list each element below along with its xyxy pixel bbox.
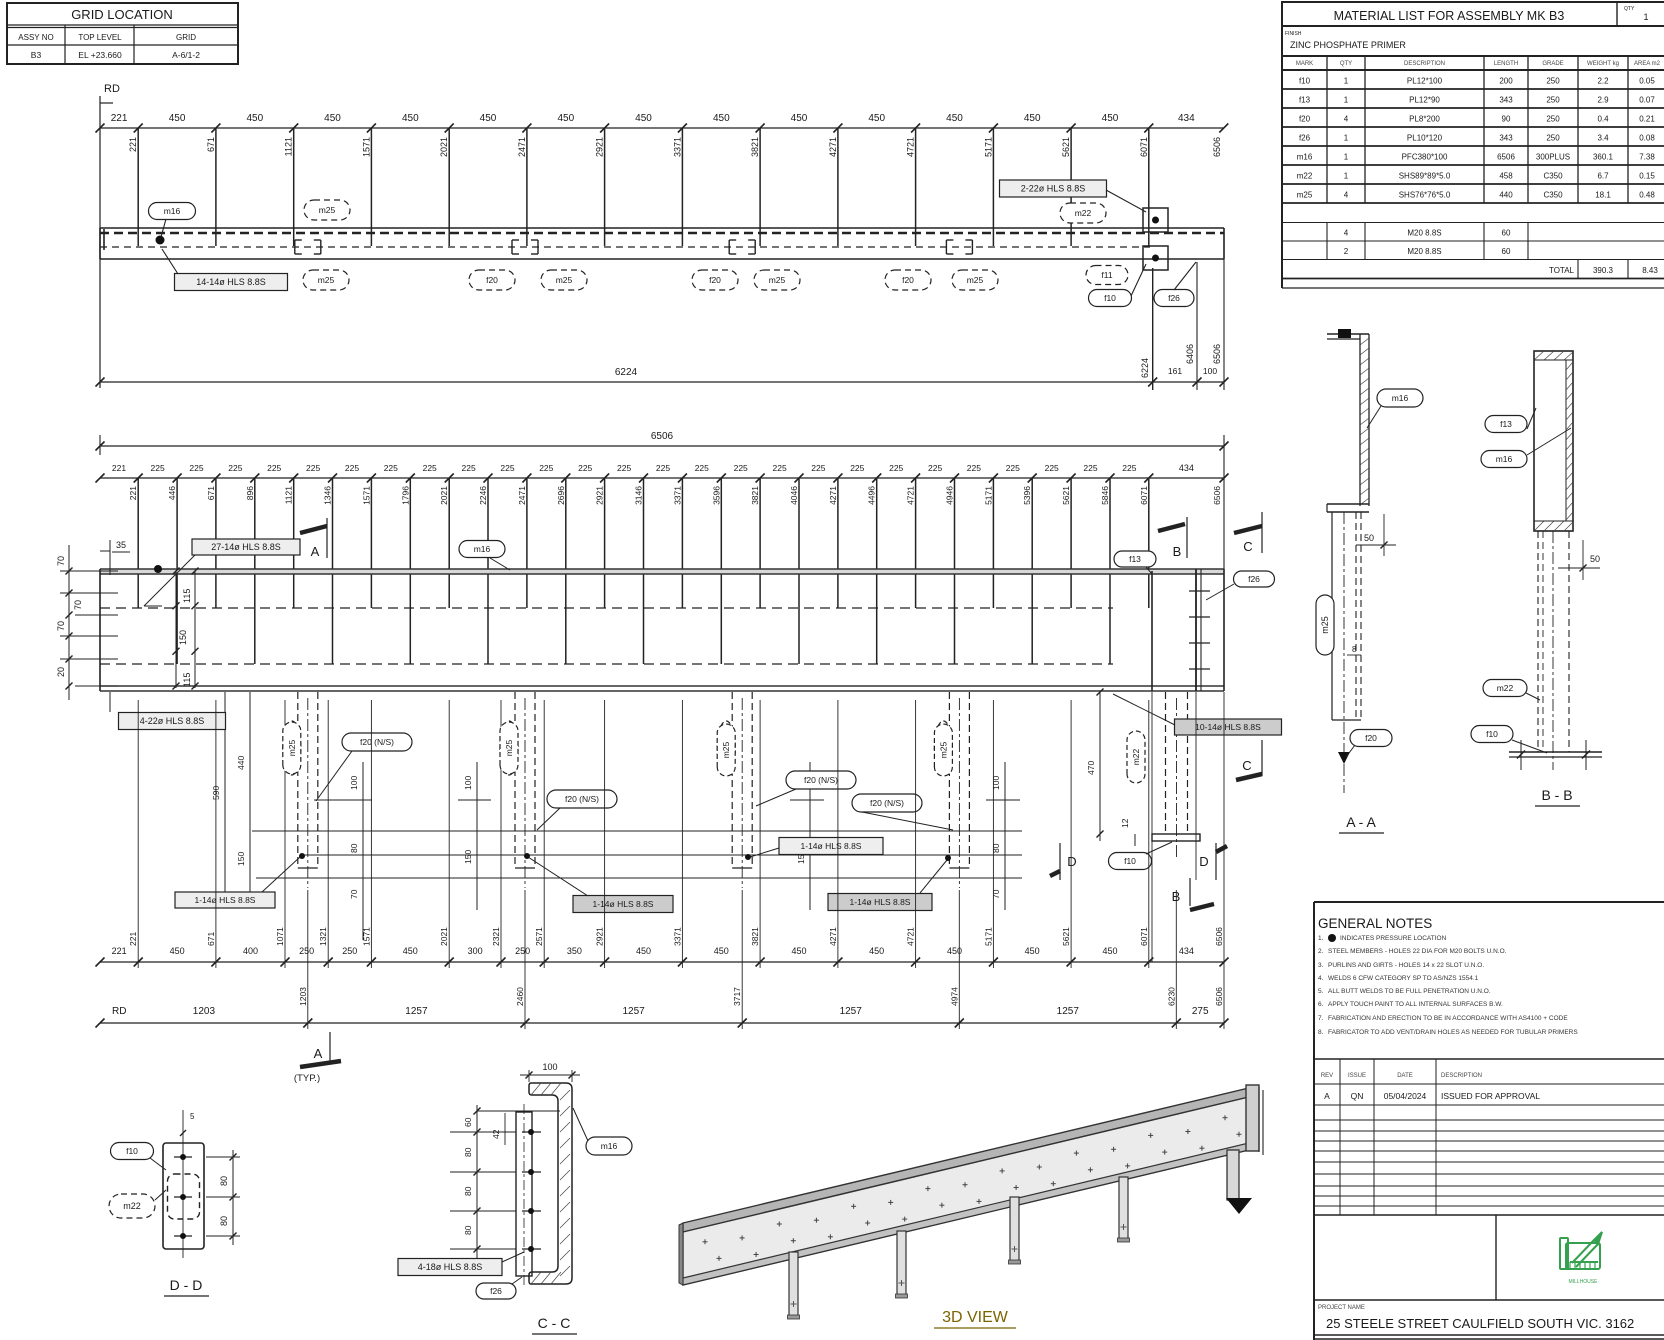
svg-text:1: 1 (1344, 134, 1349, 143)
svg-text:m22: m22 (1297, 172, 1313, 181)
svg-text:100: 100 (1203, 366, 1217, 376)
svg-text:671: 671 (206, 486, 216, 500)
svg-text:1571: 1571 (361, 137, 371, 157)
svg-text:3596: 3596 (711, 486, 721, 505)
svg-text:A: A (1324, 1091, 1330, 1101)
svg-text:QN: QN (1351, 1091, 1364, 1101)
svg-text:f10: f10 (126, 1146, 138, 1156)
svg-text:275: 275 (1192, 1006, 1209, 1017)
svg-text:225: 225 (967, 463, 981, 473)
svg-text:6224: 6224 (1140, 358, 1150, 378)
svg-text:6071: 6071 (1139, 137, 1149, 157)
svg-text:2.9: 2.9 (1597, 96, 1609, 105)
svg-text:5: 5 (190, 1112, 195, 1121)
svg-text:450: 450 (947, 946, 962, 956)
svg-text:f10: f10 (1124, 856, 1136, 866)
svg-text:4496: 4496 (867, 486, 877, 505)
svg-text:DESCRIPTION: DESCRIPTION (1441, 1073, 1482, 1079)
svg-text:1571: 1571 (361, 927, 371, 946)
svg-text:360.1: 360.1 (1593, 153, 1614, 162)
svg-text:450: 450 (480, 113, 497, 124)
svg-text:PL12*90: PL12*90 (1409, 96, 1440, 105)
svg-text:m25: m25 (1320, 616, 1330, 634)
svg-text:450: 450 (402, 113, 419, 124)
svg-text:D - D: D - D (170, 1277, 203, 1293)
svg-text:4271: 4271 (828, 486, 838, 505)
svg-text:C: C (1242, 758, 1251, 773)
svg-text:225: 225 (500, 463, 514, 473)
svg-text:m16: m16 (1392, 393, 1409, 403)
svg-text:m25: m25 (556, 275, 573, 285)
svg-text:3.: 3. (1318, 962, 1324, 969)
svg-text:225: 225 (850, 463, 864, 473)
svg-text:1257: 1257 (622, 1006, 645, 1017)
svg-text:70: 70 (56, 621, 66, 631)
svg-text:5621: 5621 (1061, 486, 1071, 505)
svg-text:0.4: 0.4 (1597, 115, 1609, 124)
svg-text:225: 225 (267, 463, 281, 473)
svg-text:8.: 8. (1318, 1029, 1324, 1036)
svg-text:225: 225 (384, 463, 398, 473)
svg-text:2921: 2921 (595, 137, 605, 157)
svg-text:4046: 4046 (789, 486, 799, 505)
svg-text:FINISH: FINISH (1285, 31, 1302, 37)
svg-text:2.2: 2.2 (1597, 77, 1609, 86)
svg-text:3371: 3371 (672, 927, 682, 946)
svg-text:1-14ø HLS 8.8S: 1-14ø HLS 8.8S (801, 841, 862, 851)
svg-text:MATERIAL LIST FOR ASSEMBLY MK: MATERIAL LIST FOR ASSEMBLY MK B3 (1334, 9, 1565, 23)
svg-text:225: 225 (578, 463, 592, 473)
svg-text:671: 671 (206, 932, 216, 946)
svg-text:m16: m16 (474, 544, 491, 554)
svg-text:225: 225 (462, 463, 476, 473)
svg-text:1257: 1257 (840, 1006, 863, 1017)
svg-text:12: 12 (1120, 818, 1130, 828)
svg-text:225: 225 (345, 463, 359, 473)
svg-text:2921: 2921 (595, 927, 605, 946)
svg-text:4-22ø HLS 8.8S: 4-22ø HLS 8.8S (140, 716, 205, 726)
svg-text:70: 70 (349, 889, 359, 899)
svg-text:m25: m25 (769, 275, 786, 285)
svg-text:458: 458 (1499, 172, 1513, 181)
svg-text:m25: m25 (967, 275, 984, 285)
svg-text:450: 450 (170, 946, 185, 956)
svg-text:3371: 3371 (672, 486, 682, 505)
svg-text:B - B: B - B (1541, 787, 1572, 803)
svg-text:6.7: 6.7 (1597, 172, 1609, 181)
svg-text:450: 450 (791, 946, 806, 956)
svg-text:450: 450 (1102, 946, 1117, 956)
svg-text:m22: m22 (1497, 683, 1514, 693)
svg-text:450: 450 (946, 113, 963, 124)
svg-text:f26: f26 (1168, 293, 1180, 303)
svg-text:RD: RD (104, 83, 120, 95)
svg-text:434: 434 (1179, 463, 1194, 473)
svg-text:1203: 1203 (193, 1006, 216, 1017)
svg-text:m25: m25 (504, 739, 514, 756)
svg-text:225: 225 (811, 463, 825, 473)
svg-text:f11: f11 (1101, 270, 1112, 280)
svg-text:2471: 2471 (517, 137, 527, 157)
svg-text:6224: 6224 (615, 367, 638, 378)
svg-text:25 STEELE STREET CAULFIELD SOU: 25 STEELE STREET CAULFIELD SOUTH VIC. 31… (1326, 1316, 1634, 1331)
svg-text:TOP LEVEL: TOP LEVEL (78, 33, 122, 42)
svg-text:115: 115 (182, 673, 192, 687)
svg-text:PL12*100: PL12*100 (1407, 77, 1443, 86)
svg-text:PURLINS AND GIRTS - HOLES 14 x: PURLINS AND GIRTS - HOLES 14 x 22 SLOT U… (1328, 962, 1484, 969)
svg-text:f26: f26 (1248, 574, 1260, 584)
svg-text:200: 200 (1499, 77, 1513, 86)
svg-text:27-14ø HLS 8.8S: 27-14ø HLS 8.8S (211, 542, 281, 552)
svg-text:42: 42 (491, 1129, 501, 1139)
svg-text:DATE: DATE (1397, 1073, 1413, 1079)
svg-text:4: 4 (1344, 229, 1349, 238)
svg-text:M20 8.8S: M20 8.8S (1407, 247, 1441, 256)
svg-text:m16: m16 (1496, 454, 1513, 464)
svg-text:ISSUED FOR APPROVAL: ISSUED FOR APPROVAL (1441, 1091, 1540, 1101)
svg-text:100: 100 (991, 776, 1001, 790)
svg-text:3371: 3371 (672, 137, 682, 157)
svg-text:0.05: 0.05 (1639, 77, 1655, 86)
svg-text:f20 (N/S): f20 (N/S) (804, 775, 838, 785)
svg-text:(TYP.): (TYP.) (294, 1073, 320, 1084)
svg-text:f20: f20 (709, 275, 721, 285)
svg-text:4721: 4721 (906, 927, 916, 946)
svg-text:m16: m16 (601, 1141, 618, 1151)
svg-text:225: 225 (1006, 463, 1020, 473)
svg-text:225: 225 (773, 463, 787, 473)
svg-text:1121: 1121 (284, 486, 294, 505)
svg-text:100: 100 (349, 776, 359, 790)
svg-text:221: 221 (111, 113, 128, 124)
svg-text:APPLY TOUCH PAINT TO ALL INTER: APPLY TOUCH PAINT TO ALL INTERNAL SURFAC… (1328, 1001, 1503, 1008)
svg-text:GRID: GRID (176, 33, 196, 42)
svg-text:250: 250 (299, 946, 314, 956)
svg-text:1121: 1121 (284, 137, 294, 156)
svg-text:6506: 6506 (1212, 344, 1222, 364)
svg-text:225: 225 (189, 463, 203, 473)
svg-text:450: 450 (791, 113, 808, 124)
svg-text:D: D (1067, 854, 1076, 869)
svg-text:70: 70 (56, 556, 66, 566)
svg-text:2: 2 (1344, 247, 1349, 256)
svg-text:2-22ø HLS 8.8S: 2-22ø HLS 8.8S (1021, 184, 1086, 194)
svg-text:1321: 1321 (318, 927, 328, 946)
svg-text:AREA m2: AREA m2 (1634, 61, 1661, 67)
svg-text:80: 80 (463, 1186, 473, 1196)
svg-text:C350: C350 (1543, 172, 1563, 181)
svg-text:REV: REV (1321, 1073, 1333, 1079)
svg-text:3821: 3821 (750, 927, 760, 946)
svg-text:6071: 6071 (1139, 927, 1149, 946)
svg-text:450: 450 (403, 946, 418, 956)
svg-text:m25: m25 (318, 275, 335, 285)
svg-text:6506: 6506 (1212, 137, 1222, 157)
svg-text:GRADE: GRADE (1542, 61, 1563, 67)
svg-text:50: 50 (1364, 533, 1374, 543)
svg-text:5846: 5846 (1100, 486, 1110, 505)
svg-text:4721: 4721 (906, 486, 916, 505)
svg-text:GENERAL NOTES: GENERAL NOTES (1318, 916, 1432, 931)
svg-text:GRID LOCATION: GRID LOCATION (71, 7, 173, 22)
svg-text:50: 50 (1590, 554, 1600, 564)
svg-text:FABRICATION AND ERECTION TO BE: FABRICATION AND ERECTION TO BE IN ACCORD… (1328, 1015, 1568, 1022)
svg-text:150: 150 (463, 850, 473, 864)
svg-text:2460: 2460 (515, 987, 525, 1006)
svg-text:0.21: 0.21 (1639, 115, 1655, 124)
svg-text:0.08: 0.08 (1639, 134, 1655, 143)
svg-text:390.3: 390.3 (1593, 266, 1614, 275)
svg-text:f20: f20 (902, 275, 914, 285)
svg-text:434: 434 (1179, 946, 1194, 956)
svg-text:1346: 1346 (323, 486, 333, 505)
svg-text:6506: 6506 (1497, 153, 1515, 162)
svg-text:PL10*120: PL10*120 (1407, 134, 1443, 143)
svg-text:1.: 1. (1318, 935, 1324, 942)
svg-text:MARK: MARK (1296, 61, 1313, 67)
svg-text:450: 450 (869, 946, 884, 956)
svg-text:225: 225 (889, 463, 903, 473)
svg-text:A: A (311, 544, 320, 559)
svg-text:450: 450 (636, 946, 651, 956)
svg-text:161: 161 (1168, 366, 1182, 376)
svg-text:90: 90 (1502, 115, 1511, 124)
svg-text:2571: 2571 (534, 927, 544, 946)
svg-text:250: 250 (1546, 134, 1560, 143)
svg-text:1: 1 (1344, 153, 1349, 162)
svg-text:f20: f20 (486, 275, 498, 285)
svg-text:671: 671 (206, 137, 216, 152)
svg-text:35: 35 (116, 540, 126, 550)
svg-text:80: 80 (219, 1176, 229, 1186)
svg-text:7.38: 7.38 (1639, 153, 1655, 162)
svg-text:343: 343 (1499, 96, 1513, 105)
svg-text:EL +23.660: EL +23.660 (78, 50, 122, 60)
svg-text:M20 8.8S: M20 8.8S (1407, 229, 1441, 238)
svg-text:450: 450 (1025, 946, 1040, 956)
svg-text:6506: 6506 (1214, 987, 1224, 1006)
svg-text:0.15: 0.15 (1639, 172, 1655, 181)
svg-text:m16: m16 (1297, 153, 1313, 162)
svg-text:3821: 3821 (750, 137, 760, 157)
svg-text:4: 4 (1344, 115, 1349, 124)
svg-text:f10: f10 (1486, 729, 1498, 739)
svg-text:f13: f13 (1129, 554, 1141, 564)
svg-text:m22: m22 (1075, 208, 1092, 218)
svg-text:4-18ø HLS 8.8S: 4-18ø HLS 8.8S (418, 1262, 483, 1272)
svg-text:4: 4 (1344, 191, 1349, 200)
svg-text:f20 (N/S): f20 (N/S) (565, 794, 599, 804)
svg-text:221: 221 (128, 932, 138, 946)
svg-text:5621: 5621 (1061, 927, 1071, 946)
svg-text:450: 450 (1102, 113, 1119, 124)
svg-text:450: 450 (1024, 113, 1041, 124)
svg-text:2021: 2021 (439, 137, 449, 157)
svg-text:450: 450 (246, 113, 263, 124)
svg-text:450: 450 (635, 113, 652, 124)
svg-text:343: 343 (1499, 134, 1513, 143)
svg-text:225: 225 (228, 463, 242, 473)
svg-text:225: 225 (306, 463, 320, 473)
svg-text:f26: f26 (490, 1286, 502, 1296)
svg-text:ASSY NO: ASSY NO (18, 33, 53, 42)
svg-text:221: 221 (128, 486, 138, 500)
svg-text:1071: 1071 (275, 927, 285, 946)
svg-text:250: 250 (515, 946, 530, 956)
svg-text:WELDS 6 CFW CATEGORY SP TO AS/: WELDS 6 CFW CATEGORY SP TO AS/NZS 1554.1 (1328, 975, 1479, 982)
svg-text:1-14ø HLS 8.8S: 1-14ø HLS 8.8S (195, 895, 256, 905)
svg-text:5.: 5. (1318, 988, 1324, 995)
svg-text:80: 80 (219, 1216, 229, 1226)
svg-text:WEIGHT kg: WEIGHT kg (1587, 61, 1619, 67)
svg-text:221: 221 (112, 463, 126, 473)
svg-text:14-14ø HLS 8.8S: 14-14ø HLS 8.8S (196, 277, 266, 287)
svg-text:f20 (N/S): f20 (N/S) (360, 737, 394, 747)
svg-text:f20: f20 (1365, 733, 1377, 743)
svg-text:18.1: 18.1 (1595, 191, 1611, 200)
svg-text:TOTAL: TOTAL (1549, 266, 1575, 275)
svg-text:80: 80 (463, 1147, 473, 1157)
svg-text:m25: m25 (287, 739, 297, 756)
svg-text:100: 100 (463, 776, 473, 790)
svg-text:8.43: 8.43 (1642, 266, 1658, 275)
svg-text:150: 150 (236, 852, 246, 866)
svg-text:400: 400 (243, 946, 258, 956)
svg-text:250: 250 (1546, 115, 1560, 124)
svg-text:ISSUE: ISSUE (1348, 1073, 1366, 1079)
svg-text:MILLHOUSE: MILLHOUSE (1569, 1279, 1599, 1285)
svg-text:80: 80 (463, 1225, 473, 1235)
svg-text:434: 434 (1178, 113, 1195, 124)
svg-text:f10: f10 (1299, 77, 1311, 86)
svg-text:250: 250 (1546, 77, 1560, 86)
svg-text:INDICATES PRESSURE LOCATION: INDICATES PRESSURE LOCATION (1340, 935, 1447, 942)
svg-text:0.07: 0.07 (1639, 96, 1655, 105)
svg-text:LENGTH: LENGTH (1494, 61, 1518, 67)
svg-text:5171: 5171 (983, 486, 993, 505)
svg-text:PROJECT NAME: PROJECT NAME (1318, 1305, 1365, 1311)
svg-text:350: 350 (567, 946, 582, 956)
svg-text:6.: 6. (1318, 1001, 1324, 1008)
svg-text:1: 1 (1344, 96, 1349, 105)
svg-text:f13: f13 (1299, 96, 1311, 105)
svg-text:f10: f10 (1104, 293, 1116, 303)
svg-text:ALL BUTT WELDS TO BE FULL PENE: ALL BUTT WELDS TO BE FULL PENETRATION U.… (1328, 988, 1491, 995)
svg-text:5396: 5396 (1022, 486, 1032, 505)
svg-text:450: 450 (713, 113, 730, 124)
svg-text:3821: 3821 (750, 486, 760, 505)
svg-text:470: 470 (1086, 761, 1096, 775)
svg-text:STEEL MEMBERS - HOLES 22 DIA F: STEEL MEMBERS - HOLES 22 DIA FOR M20 BOL… (1328, 948, 1507, 955)
svg-text:450: 450 (868, 113, 885, 124)
svg-text:4946: 4946 (945, 486, 955, 505)
svg-text:440: 440 (236, 756, 246, 770)
svg-text:1-14ø HLS 8.8S: 1-14ø HLS 8.8S (593, 899, 654, 909)
svg-text:450: 450 (169, 113, 186, 124)
svg-text:m22: m22 (123, 1201, 141, 1211)
svg-text:250: 250 (1546, 96, 1560, 105)
svg-text:1: 1 (1643, 12, 1648, 22)
svg-text:6506: 6506 (1212, 486, 1222, 505)
svg-text:m16: m16 (164, 206, 181, 216)
svg-text:1257: 1257 (1057, 1006, 1080, 1017)
svg-text:1: 1 (1344, 77, 1349, 86)
svg-text:ZINC PHOSPHATE PRIMER: ZINC PHOSPHATE PRIMER (1290, 40, 1406, 50)
svg-text:225: 225 (928, 463, 942, 473)
svg-text:3D VIEW: 3D VIEW (942, 1309, 1009, 1326)
svg-text:SHS89*89*5.0: SHS89*89*5.0 (1399, 172, 1451, 181)
svg-text:225: 225 (617, 463, 631, 473)
svg-text:440: 440 (1499, 191, 1513, 200)
svg-text:2321: 2321 (491, 927, 501, 946)
svg-text:0.48: 0.48 (1639, 191, 1655, 200)
svg-text:PFC380*100: PFC380*100 (1402, 153, 1448, 162)
svg-text:5621: 5621 (1061, 137, 1071, 157)
svg-text:2246: 2246 (478, 486, 488, 505)
svg-text:DESCRIPTION: DESCRIPTION (1404, 61, 1445, 67)
svg-text:4974: 4974 (949, 987, 959, 1006)
svg-text:2021: 2021 (439, 927, 449, 946)
svg-text:m25: m25 (319, 205, 336, 215)
svg-text:1796: 1796 (400, 486, 410, 505)
svg-text:6071: 6071 (1139, 486, 1149, 505)
svg-text:m25: m25 (721, 741, 731, 758)
svg-text:f26: f26 (1299, 134, 1311, 143)
svg-text:2021: 2021 (439, 486, 449, 505)
svg-text:60: 60 (1502, 247, 1511, 256)
svg-text:150: 150 (178, 630, 188, 645)
svg-text:FABRICATOR TO ADD VENT/DRAIN H: FABRICATOR TO ADD VENT/DRAIN HOLES AS NE… (1328, 1029, 1578, 1036)
svg-text:6506: 6506 (651, 431, 674, 442)
svg-text:f20: f20 (1299, 115, 1311, 124)
svg-text:225: 225 (151, 463, 165, 473)
svg-text:f13: f13 (1500, 419, 1512, 429)
svg-text:115: 115 (182, 589, 192, 603)
svg-text:3717: 3717 (732, 987, 742, 1006)
svg-text:80: 80 (991, 843, 1001, 853)
svg-text:225: 225 (656, 463, 670, 473)
svg-text:RD: RD (112, 1006, 126, 1017)
svg-text:896: 896 (245, 486, 255, 500)
svg-text:C350: C350 (1543, 191, 1563, 200)
svg-text:m25: m25 (938, 741, 948, 758)
svg-text:300: 300 (468, 946, 483, 956)
svg-text:m22: m22 (1131, 748, 1141, 765)
svg-text:221: 221 (128, 137, 138, 152)
svg-text:2.: 2. (1318, 948, 1324, 955)
svg-text:60: 60 (463, 1117, 473, 1127)
svg-text:B: B (1173, 544, 1182, 559)
svg-text:10-14ø HLS 8.8S: 10-14ø HLS 8.8S (1195, 722, 1261, 732)
svg-text:5171: 5171 (983, 137, 993, 157)
svg-text:450: 450 (324, 113, 341, 124)
svg-text:70: 70 (991, 889, 1001, 899)
svg-text:8: 8 (1352, 645, 1357, 654)
svg-text:C: C (1243, 539, 1252, 554)
svg-text:225: 225 (695, 463, 709, 473)
svg-text:7.: 7. (1318, 1015, 1324, 1022)
svg-text:225: 225 (1083, 463, 1097, 473)
svg-text:1203: 1203 (298, 987, 308, 1006)
svg-text:4721: 4721 (906, 137, 916, 157)
svg-text:5171: 5171 (983, 927, 993, 946)
svg-text:m25: m25 (1297, 191, 1313, 200)
svg-text:225: 225 (1122, 463, 1136, 473)
svg-text:4.: 4. (1318, 975, 1324, 982)
svg-text:05/04/2024: 05/04/2024 (1384, 1091, 1427, 1101)
svg-text:1257: 1257 (405, 1006, 428, 1017)
svg-text:3146: 3146 (634, 486, 644, 505)
